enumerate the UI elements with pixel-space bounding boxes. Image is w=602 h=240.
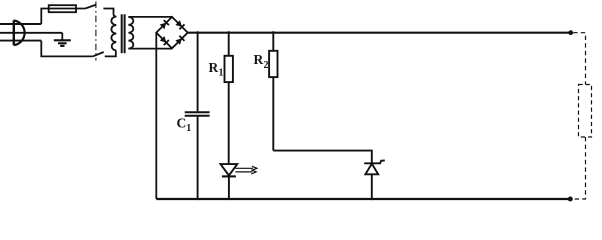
- switch linkage (dash-dot): [95, 2, 97, 61]
- wire (secondary top lead to bridge top corner): [128, 16, 172, 18]
- bridge rectifier VC (diamond): [156, 17, 187, 48]
- capacitor C1: [185, 31, 210, 200]
- diode VD1 (upper-left edge, points to top corner): [160, 20, 169, 29]
- LED emission arrows: [235, 166, 257, 174]
- wire (switch right contact to transformer primary top): [103, 9, 116, 17]
- wire (secondary bottom lead to bridge bottom corner): [128, 48, 172, 50]
- node + rail (top DC rail): [188, 32, 571, 34]
- resistor R2: [269, 31, 277, 150]
- wire (switch right contact to transformer primary bottom): [105, 50, 117, 56]
- wire (R2 to zener, y=150.6): [273, 151, 372, 164]
- terminal node (bottom output): [568, 197, 573, 202]
- fuse FU: [49, 5, 86, 12]
- resistor R1: [225, 31, 233, 164]
- svg-text:1: 1: [186, 123, 191, 134]
- terminal node (top output): [568, 30, 573, 35]
- svg-text:2: 2: [264, 60, 269, 71]
- wire (bridge minus corner down to bottom rail, x=156.3): [155, 33, 157, 199]
- wire (middle prong to ground, y=32.8): [0, 32, 62, 34]
- svg-text:R: R: [254, 52, 264, 67]
- diode VD3 (lower-left edge, points to bottom corner): [160, 36, 169, 45]
- LED VD5: [221, 164, 238, 200]
- switch S1a (line pole blade): [85, 5, 96, 9]
- transformer core: [122, 14, 125, 53]
- wire (top prong riser x=41.3): [41, 9, 48, 25]
- svg-text:C: C: [177, 115, 187, 130]
- diode VD2 (upper-right edge, points to right corner): [175, 20, 184, 29]
- switch S1b (neutral pole blade): [93, 52, 104, 56]
- wire (bottom prong drop x=41.3 and bottom AC wire y=56.4): [41, 41, 92, 57]
- svg-text:R: R: [209, 60, 219, 75]
- wire (dashed connection to load, top): [573, 33, 585, 85]
- zener diode VD6: [364, 161, 385, 201]
- transformer T secondary winding: [128, 17, 133, 49]
- load RL (dashed box): [579, 85, 592, 138]
- wire (bottom DC rail): [156, 198, 570, 200]
- wire (bottom prong, y=40.6): [0, 40, 41, 42]
- diode VD4 (lower-right edge, points to right corner): [175, 36, 184, 45]
- wire (dashed connection to load, bottom): [573, 137, 585, 199]
- transformer T primary winding: [111, 17, 116, 51]
- ground (protective earth): [54, 33, 71, 46]
- plug P (mains plug, flat side + arc): [14, 20, 25, 45]
- svg-text:1: 1: [219, 68, 224, 79]
- wire (top prong, y=24): [0, 23, 41, 25]
